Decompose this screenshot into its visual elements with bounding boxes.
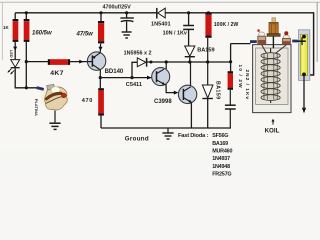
wire R1 to LED with arrow [13,42,17,59]
wire main net y62 [147,61,231,63]
node dot R2/4K7 [25,60,28,63]
resistor R1 1K [3,19,18,42]
diode D2 BA159 [185,46,215,62]
node rail junction at C2 [187,11,190,14]
svg-text:1N4948: 1N4948 [212,164,230,170]
Fast Dioda list [178,133,232,178]
wire R2 bottom down [25,42,27,88]
svg-text:Ground: Ground [125,136,149,143]
platina glow [41,85,69,111]
wire C3998 collector [190,62,192,86]
resistor R2 160/5w [24,19,52,42]
svg-text:LED: LED [9,50,13,58]
wire to 4K7 [26,61,48,63]
wire rail to 47/5w [100,13,102,21]
svg-text:4K7: 4K7 [50,70,63,77]
node dot LED/platina run [25,86,28,89]
coil winding hatch [264,53,277,99]
wire 100K bottom to main net [207,38,209,62]
wire BD140 collector down to base line [99,70,101,78]
svg-text:1N5401: 1N5401 [151,21,171,27]
platina wire blue segment [37,88,44,90]
svg-text:10 / 2W: 10 / 2W [237,65,243,89]
svg-text:BA159: BA159 [197,48,214,54]
ground symbol mid [125,128,174,143]
node net dot at R5 / D3 [206,60,209,63]
platina contact breaker [34,84,68,116]
diode D3 BA159 lower [202,81,220,128]
diode D1 1N5401 [151,8,171,28]
resistor R6 10/2W [228,65,244,90]
wire 4K7 to BD140 base with arrow [70,60,87,64]
svg-text:FR257G: FR257G [212,172,231,178]
coil right post [282,31,290,44]
node rail junction at R4 [99,11,102,14]
coil tower [267,18,280,49]
svg-text:1N4937: 1N4937 [212,156,230,162]
wire C3 to ground rail [229,109,231,128]
LED D-led [7,50,19,75]
wire right post to condenser top [297,35,306,77]
transistor Q3 C3998 [154,85,197,105]
svg-text:MUR460: MUR460 [212,148,232,154]
svg-text:47/5w: 47/5w [76,31,94,37]
svg-text:KOIL: KOIL [265,128,280,135]
node rail junction at R5 [207,11,210,14]
coil left post [257,29,265,44]
svg-text:160/5w: 160/5w [32,31,52,37]
resistor R5 100K/2W [205,13,238,38]
wire to C5411 base with arrow [100,76,151,80]
coil lead diagonals [262,45,267,53]
wire 100K/BA159 junction down [207,62,209,85]
wire R1 top [14,13,16,19]
node net dot at coil feed [229,60,232,63]
resistor R4 47/5w [76,21,105,43]
svg-text:100K / 2W: 100K / 2W [214,22,239,28]
wire C3998 emitter to ground rail [190,103,192,128]
svg-text:BD140: BD140 [105,69,124,75]
svg-text:2N2 / 1Kv: 2N2 / 1Kv [244,70,250,101]
svg-text:BA169: BA169 [212,141,228,147]
wire coil feed vertical [230,44,232,72]
wire blue segment right of coil [292,40,297,43]
wire 47/5w to BD140 emitter with arrow [98,44,102,53]
node rail junction at C1 [125,11,128,14]
KOIL label and arrow [265,119,280,135]
ground under C1 [122,32,132,38]
wire net to coil left post [231,43,251,45]
node dot collector/470 [99,76,102,79]
condenser (yellow capacitor) [298,30,309,81]
svg-text:SF56G: SF56G [212,133,228,139]
transistor Q1 BD140 [87,52,124,75]
wire 470 resistor top [99,78,101,89]
wire top rail left of diode D1 [15,12,156,14]
svg-text:PLATINA: PLATINA [34,99,39,116]
transistor Q2 C5411 [126,68,170,89]
wire condenser bottom down with arrow [302,74,306,113]
svg-text:C3998: C3998 [154,99,172,105]
ground symbol platina [49,123,60,129]
wire 470 bottom to ground rail [100,116,102,128]
wire LED down and bottom-left run to platina [15,68,37,88]
svg-text:BA159: BA159 [214,81,220,100]
svg-text:470: 470 [82,98,93,104]
node net dot after D4 [150,61,153,64]
svg-text:C5411: C5411 [126,82,142,88]
svg-text:1K: 1K [3,25,9,30]
svg-text:4700uf/25V: 4700uf/25V [103,4,132,10]
wire C5411 collector [165,62,167,69]
node net dot at Q2 collector [165,60,168,63]
wire C5411 emitter to C3998 base with arrow [166,84,178,95]
coil windings [261,53,280,101]
ground rail [101,127,231,129]
svg-text:10N / 1Kv: 10N / 1Kv [163,31,187,37]
coil body [253,45,291,113]
svg-text:1N5956 x 2: 1N5956 x 2 [124,51,152,57]
wire blue segment left of coil [250,40,257,43]
capacitor C2 10N/1Kv [163,26,194,46]
capacitor C1 4700uf/25V [103,4,134,31]
node net dot at D2 / Q3 collector [188,60,191,63]
wire R6 to C3 [229,90,231,105]
svg-text:Fast Dioda :: Fast Dioda : [178,133,208,139]
wire R2 top [25,13,27,19]
capacitor C3 2N2/1Kv [225,70,250,110]
wire rail to C1 [126,13,128,18]
resistor R3 4K7 [48,59,70,77]
wire platina to ground [54,111,56,123]
wire top rail right of diode D1 and right border drop [165,13,314,75]
resistor R7 470 [82,88,104,115]
node rail junction at R2 [25,11,28,14]
wire rail to C2 [188,13,190,25]
diode D4 1N5956 [124,51,152,80]
